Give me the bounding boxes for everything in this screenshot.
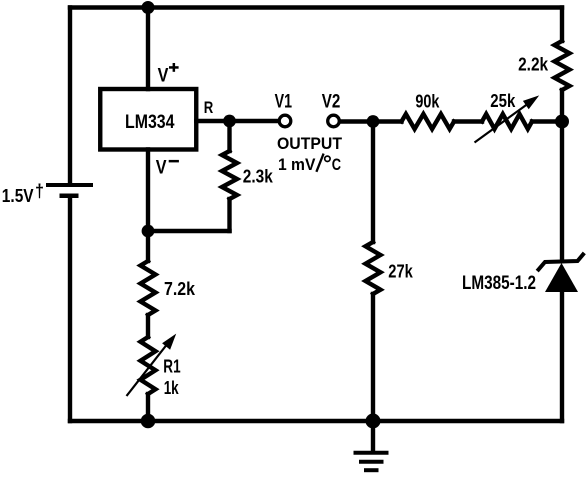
svg-text:OUTPUT: OUTPUT: [277, 134, 343, 153]
svg-text:1k: 1k: [164, 378, 180, 398]
svg-text:27k: 27k: [388, 262, 413, 282]
svg-text:R1: R1: [163, 357, 180, 377]
svg-text:25k: 25k: [490, 91, 516, 111]
svg-text:90k: 90k: [415, 92, 440, 112]
svg-text:V: V: [158, 65, 169, 86]
svg-text:†: †: [35, 181, 44, 201]
svg-text:2.3k: 2.3k: [243, 167, 274, 187]
svg-text:V1: V1: [275, 92, 293, 113]
svg-text:V: V: [156, 157, 167, 178]
svg-text:C: C: [332, 155, 341, 174]
svg-text:LM385-1.2: LM385-1.2: [462, 273, 536, 294]
svg-text:7.2k: 7.2k: [164, 279, 196, 299]
svg-text:R: R: [204, 98, 214, 117]
svg-text:LM334: LM334: [125, 112, 175, 133]
svg-text:2.2k: 2.2k: [518, 54, 549, 74]
svg-text:V2: V2: [322, 92, 341, 113]
svg-text:1.5V: 1.5V: [2, 186, 34, 206]
svg-text:1 mV: 1 mV: [278, 155, 316, 174]
